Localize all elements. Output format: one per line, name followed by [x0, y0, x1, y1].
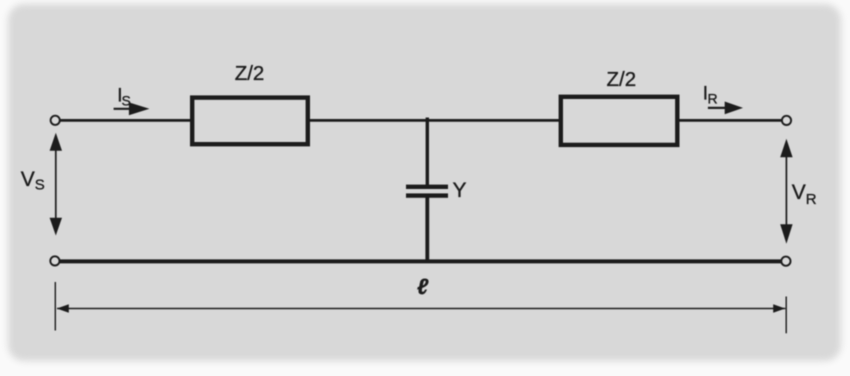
svg-text:V: V — [21, 168, 35, 191]
svg-text:S: S — [122, 93, 131, 109]
value label Z/2 (right) — [606, 68, 636, 91]
node: receiving-end top terminal — [782, 116, 791, 125]
svg-text:Y: Y — [453, 179, 467, 202]
svg-text:Z/2: Z/2 — [606, 68, 636, 91]
wire: bottom conductor — [57, 259, 785, 263]
svg-text:R: R — [806, 191, 817, 208]
svg-text:Z/2: Z/2 — [235, 62, 265, 85]
label Is — [117, 86, 131, 109]
dimension line for length — [57, 304, 786, 312]
svg-text:R: R — [708, 91, 718, 107]
svg-text:V: V — [792, 181, 806, 204]
dimension extension line (left) — [54, 282, 56, 331]
current arrow Is — [114, 102, 150, 115]
label script ell (line length) — [417, 274, 429, 299]
dimension extension line (right) — [785, 297, 787, 334]
wire: top conductor — [59, 119, 782, 122]
svg-text:S: S — [35, 176, 45, 193]
label Vr — [792, 181, 817, 208]
impedance Z/2 (left series branch) — [192, 98, 308, 145]
current arrow Ir — [708, 102, 743, 115]
voltage arrow Vs (double-headed) — [50, 133, 62, 236]
voltage arrow Vr (double-headed) — [780, 139, 792, 244]
label Y — [453, 179, 467, 202]
value label Z/2 (left) — [235, 62, 265, 85]
label Ir — [703, 84, 718, 107]
wire: shunt branch upper segment — [426, 118, 429, 186]
impedance Z/2 (right series branch) — [561, 97, 678, 145]
capacitor Y (shunt admittance plates) — [406, 185, 448, 198]
svg-text:ℓ: ℓ — [417, 274, 429, 299]
node: receiving-end bottom terminal — [781, 257, 790, 266]
label Vs — [21, 168, 45, 193]
node: sending-end top terminal — [51, 116, 60, 125]
wire: shunt branch lower segment — [425, 197, 429, 262]
node: sending-end bottom terminal — [50, 256, 59, 265]
